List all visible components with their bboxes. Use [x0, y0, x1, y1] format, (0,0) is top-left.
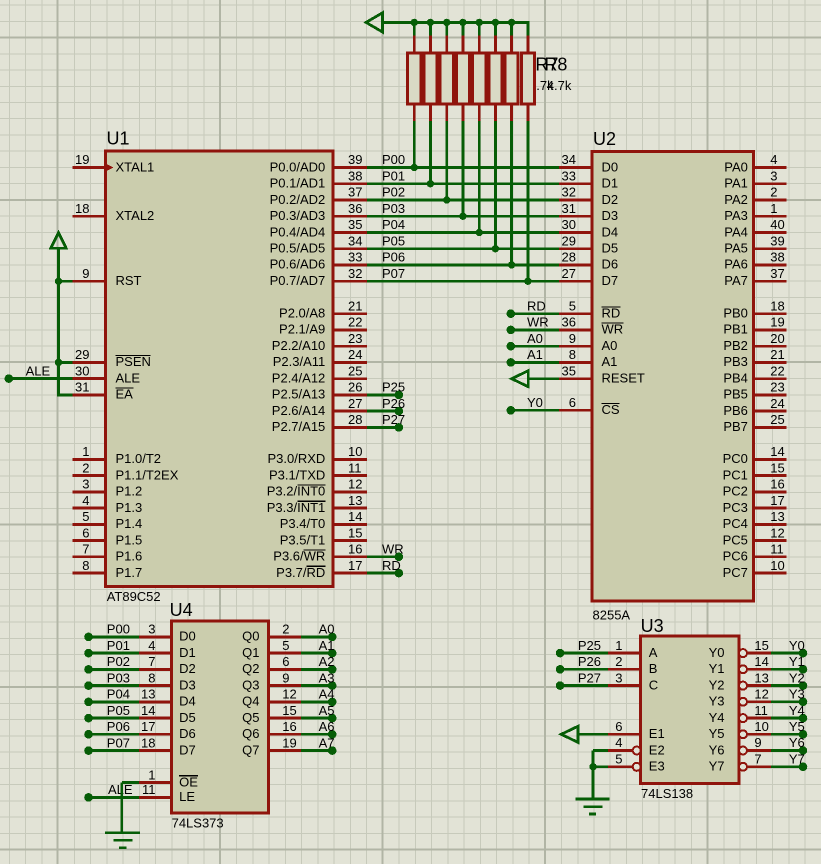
U2 pin 12 (PC5): [754, 539, 787, 542]
chip U1 AT89C52 body: [106, 151, 333, 587]
svg-text:28: 28: [562, 250, 576, 265]
svg-text:38: 38: [770, 250, 784, 265]
svg-text:P0.5/AD5: P0.5/AD5: [270, 241, 326, 256]
U3 pin 6 (E1): [608, 733, 641, 736]
wire net P27 to U3: [560, 684, 608, 687]
svg-text:PA0: PA0: [724, 159, 748, 174]
U1 pin 11 (P3.1/TXD): [333, 474, 367, 477]
svg-text:14: 14: [754, 654, 768, 669]
svg-text:12: 12: [754, 687, 768, 702]
svg-text:Y0: Y0: [527, 395, 543, 410]
svg-text:PC6: PC6: [723, 549, 748, 564]
U2 pin 17 (PC3): [754, 507, 787, 510]
svg-text:Y3: Y3: [789, 687, 805, 702]
svg-text:Q2: Q2: [242, 661, 259, 676]
svg-text:PC3: PC3: [723, 500, 748, 515]
svg-text:D1: D1: [179, 645, 196, 660]
wire net A1: [511, 361, 559, 364]
svg-text:Y6: Y6: [709, 742, 725, 757]
U1 pin 31 (EA): [73, 393, 106, 396]
svg-text:14: 14: [348, 509, 362, 524]
U3 pin 7 (Y7): [739, 763, 747, 771]
U1 pin 16 (P3.6/WR): [333, 555, 367, 558]
svg-text:24: 24: [348, 347, 362, 362]
svg-text:PB7: PB7: [723, 419, 748, 434]
U3 pin 1 (A): [608, 652, 641, 655]
node A4 dangling end: [328, 698, 337, 707]
junction top rail / R1: [411, 19, 418, 26]
junction R7 / P06 wire: [508, 261, 515, 268]
wire net Y2 out: [771, 684, 803, 687]
svg-text:15: 15: [754, 638, 768, 653]
svg-text:33: 33: [562, 168, 576, 183]
svg-text:13: 13: [770, 509, 784, 524]
U1 pin 33 (P0.6/AD6): [333, 263, 367, 266]
svg-text:PC5: PC5: [723, 532, 748, 547]
node Y4 dangling end: [799, 714, 808, 723]
svg-text:XTAL2: XTAL2: [116, 208, 155, 223]
node Y0 terminal dot: [507, 406, 516, 415]
U1 pin 30 (ALE): [73, 377, 106, 380]
svg-text:PA5: PA5: [724, 241, 748, 256]
chip U3 74LS138 body: [641, 636, 740, 783]
svg-text:D3: D3: [602, 208, 619, 223]
wire net P06 to U4: [89, 733, 140, 736]
svg-text:34: 34: [348, 233, 362, 248]
svg-text:A: A: [649, 645, 658, 660]
wire net Y3 out: [771, 700, 803, 703]
svg-text:P2.3/A11: P2.3/A11: [273, 354, 326, 369]
U2 pin 16 (PC2): [754, 490, 787, 493]
U3 pin 3 (C): [608, 684, 641, 687]
svg-text:PC1: PC1: [723, 467, 748, 482]
svg-text:7: 7: [148, 654, 155, 669]
U1 pin 26 (P2.5/A13): [333, 393, 367, 396]
wire net RD: [511, 312, 559, 315]
svg-text:11: 11: [770, 542, 784, 557]
resistor R4 4.7k: [456, 21, 469, 216]
wire net Y0 out: [771, 652, 803, 655]
svg-text:P06: P06: [382, 250, 405, 265]
U4 pin 3 (D0): [139, 636, 171, 639]
U2 pin 22 (PB4): [754, 377, 787, 380]
svg-text:P25: P25: [578, 638, 601, 653]
U1 pin 10 (P3.0/RXD): [333, 458, 367, 461]
resistor R2 4.7k: [424, 21, 437, 184]
svg-text:Q6: Q6: [242, 726, 259, 741]
svg-text:P03: P03: [382, 201, 405, 216]
svg-text:PB3: PB3: [723, 354, 748, 369]
U1 pin 18 (XTAL2): [73, 215, 106, 218]
junction R2 / P01 wire: [427, 180, 434, 187]
svg-text:Y2: Y2: [789, 670, 805, 685]
chip U2 8255A body: [592, 151, 754, 601]
svg-text:P3.6/WR: P3.6/WR: [273, 549, 325, 564]
U2 pin 1 (PA3): [754, 215, 787, 218]
svg-text:6: 6: [569, 395, 576, 410]
svg-text:22: 22: [348, 315, 362, 330]
junction top rail / R2: [427, 19, 434, 26]
power symbol VCC (near RST): [51, 233, 66, 249]
svg-text:30: 30: [562, 217, 576, 232]
U4 pin 8 (D3): [139, 684, 171, 687]
U1 pin 3 (P1.2): [73, 490, 106, 493]
U1 pin 7 (P1.6): [73, 555, 106, 558]
junction top rail / R5: [476, 19, 483, 26]
input terminal arrow (E1): [561, 726, 578, 742]
svg-text:Y7: Y7: [789, 752, 805, 767]
U2 pin 18 (PB0): [754, 312, 787, 315]
svg-text:13: 13: [141, 687, 155, 702]
svg-text:3: 3: [770, 168, 777, 183]
svg-text:P1.0/T2: P1.0/T2: [116, 451, 162, 466]
svg-text:35: 35: [562, 363, 576, 378]
wire net A0: [511, 345, 559, 348]
svg-text:PC2: PC2: [723, 484, 748, 499]
svg-text:A2: A2: [319, 654, 335, 669]
svg-text:P00: P00: [382, 152, 405, 167]
U1 pin 24 (P2.3/A11): [333, 361, 367, 364]
wire net P07 to U4: [89, 749, 140, 752]
svg-text:R8: R8: [544, 55, 567, 75]
svg-text:P2.1/A9: P2.1/A9: [279, 322, 325, 337]
svg-text:16: 16: [348, 542, 362, 557]
svg-text:P1.5: P1.5: [116, 532, 143, 547]
svg-text:28: 28: [348, 412, 362, 427]
svg-text:4: 4: [615, 735, 622, 750]
svg-text:25: 25: [348, 363, 362, 378]
U2 pin 33 (D1): [559, 182, 592, 185]
svg-text:10: 10: [754, 719, 768, 734]
U3 pin 14 (Y1): [739, 665, 747, 673]
svg-text:P3.0/RXD: P3.0/RXD: [267, 451, 325, 466]
U1 pin 13 (P3.3/INT1): [333, 507, 367, 510]
svg-text:Y0: Y0: [789, 638, 805, 653]
svg-text:1: 1: [615, 638, 622, 653]
svg-text:P25: P25: [382, 380, 405, 395]
svg-text:36: 36: [562, 315, 576, 330]
node ALE terminal dot (U4): [84, 793, 93, 802]
svg-text:12: 12: [348, 477, 362, 492]
svg-text:P3.7/RD: P3.7/RD: [276, 565, 325, 580]
node Y2 dangling end: [799, 681, 808, 690]
svg-text:31: 31: [75, 380, 89, 395]
node P03 terminal dot (U4): [84, 681, 93, 690]
U1 pin 25 (P2.4/A12): [333, 377, 367, 380]
svg-text:11: 11: [142, 782, 156, 797]
svg-text:20: 20: [770, 331, 784, 346]
U4 pin 6 (Q2): [268, 668, 301, 671]
svg-text:D7: D7: [179, 742, 196, 757]
U2 pin 37 (PA7): [754, 280, 787, 283]
svg-text:18: 18: [75, 201, 89, 216]
svg-text:PC0: PC0: [723, 451, 748, 466]
wire net P00 to U4: [89, 636, 140, 639]
svg-text:Y7: Y7: [709, 759, 725, 774]
svg-text:37: 37: [770, 266, 784, 281]
U1 pin 9 (RST): [73, 280, 106, 283]
node P07 terminal dot (U4): [84, 746, 93, 755]
wire net Y4 out: [771, 717, 803, 720]
svg-text:15: 15: [770, 460, 784, 475]
svg-text:P1.4: P1.4: [116, 516, 143, 531]
svg-text:P3.1/TXD: P3.1/TXD: [269, 467, 325, 482]
svg-text:RESET: RESET: [602, 371, 645, 386]
U2 pin 11 (PC6): [754, 555, 787, 558]
svg-text:5: 5: [569, 298, 576, 313]
svg-text:CS: CS: [602, 402, 620, 417]
svg-text:6: 6: [282, 654, 289, 669]
svg-text:P2.5/A13: P2.5/A13: [272, 387, 326, 402]
U4 pin 15 (Q5): [268, 717, 301, 720]
svg-text:PB0: PB0: [723, 306, 748, 321]
resistor R6 4.7k: [489, 21, 502, 249]
node Y7 dangling end: [799, 763, 808, 772]
svg-text:Y5: Y5: [789, 719, 805, 734]
resistor R8 4.7k: [521, 21, 534, 281]
wire ALE net: [9, 377, 73, 380]
U2 pin 40 (PA4): [754, 231, 787, 234]
svg-text:Y1: Y1: [709, 661, 725, 676]
U2 pin 39 (PA5): [754, 247, 787, 250]
U1 pin 36 (P0.3/AD3): [333, 215, 367, 218]
U2 pin 23 (PB5): [754, 393, 787, 396]
U2 pin 35 (RESET): [559, 377, 592, 380]
U1 pin 8 (P1.7): [73, 572, 106, 575]
svg-text:27: 27: [348, 396, 362, 411]
U4 pin 19 (Q7): [268, 749, 301, 752]
node WR terminal dot: [507, 326, 516, 335]
svg-text:P05: P05: [107, 703, 130, 718]
svg-text:P2.6/A14: P2.6/A14: [272, 403, 326, 418]
svg-text:P06: P06: [107, 719, 130, 734]
svg-text:E3: E3: [649, 759, 665, 774]
svg-text:Y6: Y6: [789, 735, 805, 750]
junction R6 / P05 wire: [492, 245, 499, 252]
U1 pin 6 (P1.5): [73, 539, 106, 542]
svg-text:12: 12: [770, 525, 784, 540]
U2 pin 32 (D2): [559, 199, 592, 202]
junction top rail / R4: [459, 19, 466, 26]
svg-text:U1: U1: [107, 129, 130, 149]
svg-text:25: 25: [770, 412, 784, 427]
junction R8 / P07 wire: [524, 278, 531, 285]
U4 pin 13 (D4): [139, 701, 171, 704]
svg-text:P02: P02: [107, 654, 130, 669]
svg-text:PA2: PA2: [724, 192, 748, 207]
resistor R3 4.7k: [440, 21, 453, 200]
wire net A0: [301, 636, 332, 639]
wire net P01 to U4: [89, 652, 140, 655]
wire OE to ground: [122, 781, 139, 784]
svg-text:Y0: Y0: [709, 645, 725, 660]
U4 pin 18 (D7): [139, 749, 171, 752]
svg-text:8: 8: [569, 347, 576, 362]
svg-text:P26: P26: [382, 396, 405, 411]
svg-text:Y1: Y1: [789, 654, 805, 669]
U4 pin 9 (Q3): [268, 684, 301, 687]
wire net P27 stub: [367, 426, 399, 429]
svg-text:19: 19: [770, 315, 784, 330]
svg-text:35: 35: [348, 217, 362, 232]
wire net Y5 out: [771, 733, 803, 736]
U1 pin 28 (P2.7/A15): [333, 426, 367, 429]
ground (U4 OE): [105, 833, 140, 848]
svg-text:D4: D4: [602, 224, 619, 239]
U2 pin 3 (PA1): [754, 182, 787, 185]
input terminal arrow (RESET): [512, 371, 529, 387]
junction E3/gnd line: [589, 763, 596, 770]
wire net P02 (U1 to U2): [367, 199, 559, 202]
U3 pin 12 (Y3): [739, 698, 747, 706]
junction top rail / R3: [443, 19, 450, 26]
wire net A3: [301, 684, 332, 687]
svg-text:P0.2/AD2: P0.2/AD2: [270, 192, 326, 207]
U3 pin 10 (Y5): [739, 730, 747, 738]
svg-text:A7: A7: [319, 735, 335, 750]
wire net P05 to U4: [89, 717, 140, 720]
svg-text:P2.7/A15: P2.7/A15: [272, 419, 326, 434]
U2 pin 21 (PB3): [754, 361, 787, 364]
svg-text:D3: D3: [179, 677, 196, 692]
svg-text:XTAL1: XTAL1: [116, 159, 155, 174]
svg-text:P2.2/A10: P2.2/A10: [272, 338, 326, 353]
svg-text:29: 29: [562, 233, 576, 248]
svg-text:12: 12: [282, 687, 296, 702]
node Y0 dangling end: [799, 649, 808, 658]
U1 pin 1 (P1.0/T2): [73, 458, 106, 461]
svg-text:A3: A3: [319, 670, 335, 685]
wire net P01 (U1 to U2): [367, 182, 559, 185]
node Y3 dangling end: [799, 698, 808, 707]
svg-text:D5: D5: [179, 710, 196, 725]
wire net Y0 to CS: [511, 409, 559, 412]
svg-text:19: 19: [282, 735, 296, 750]
svg-text:ALE: ALE: [26, 363, 51, 378]
U1 pin 19 (XTAL1): [73, 166, 106, 169]
svg-text:D0: D0: [602, 159, 619, 174]
U1 pin 23 (P2.2/A10): [333, 345, 367, 348]
U4 pin 7 (D2): [139, 668, 171, 671]
wire net Y7 out: [771, 765, 803, 768]
svg-text:11: 11: [754, 703, 768, 718]
svg-text:74LS373: 74LS373: [172, 816, 224, 831]
svg-text:23: 23: [348, 331, 362, 346]
svg-text:6: 6: [82, 525, 89, 540]
svg-text:2: 2: [615, 654, 622, 669]
resistor R5 4.7k: [473, 21, 486, 233]
wire top rail: [381, 21, 529, 24]
U1 pin 32 (P0.7/AD7): [333, 280, 367, 283]
svg-text:PA1: PA1: [724, 176, 748, 191]
power terminal arrow (top rail): [366, 13, 383, 32]
U4 pin 2 (Q0): [268, 636, 301, 639]
svg-text:9: 9: [569, 331, 576, 346]
svg-text:A6: A6: [319, 719, 335, 734]
svg-text:38: 38: [348, 168, 362, 183]
U2 pin 8 (A1): [559, 361, 592, 364]
svg-text:9: 9: [282, 670, 289, 685]
svg-text:Q4: Q4: [242, 694, 259, 709]
svg-text:39: 39: [770, 233, 784, 248]
U2 pin 6 (CS): [559, 409, 592, 412]
wire net A2: [301, 668, 332, 671]
svg-text:14: 14: [141, 703, 155, 718]
svg-text:Q1: Q1: [242, 645, 259, 660]
U1 pin 12 (P3.2/INT0): [333, 490, 367, 493]
U2 pin 13 (PC4): [754, 523, 787, 526]
wire net P00 (U1 to U2): [367, 166, 559, 169]
svg-text:4: 4: [770, 152, 777, 167]
svg-text:A0: A0: [602, 338, 618, 353]
svg-text:21: 21: [770, 347, 784, 362]
svg-text:P07: P07: [107, 735, 130, 750]
U3 pin 2 (B): [608, 668, 641, 671]
svg-text:C: C: [649, 677, 658, 692]
svg-text:D1: D1: [602, 176, 619, 191]
svg-text:22: 22: [770, 363, 784, 378]
node A6 dangling end: [328, 730, 337, 739]
svg-text:15: 15: [348, 525, 362, 540]
svg-text:Q7: Q7: [242, 742, 259, 757]
svg-text:RD: RD: [527, 298, 546, 313]
svg-text:P04: P04: [107, 687, 130, 702]
node A1 dangling end: [328, 649, 337, 658]
U1 pin 38 (P0.1/AD1): [333, 182, 367, 185]
svg-text:P26: P26: [578, 654, 601, 669]
node Y5 dangling end: [799, 730, 808, 739]
U2 pin 28 (D6): [559, 263, 592, 266]
wire net P25 to U3: [560, 652, 608, 655]
svg-text:1: 1: [148, 767, 155, 782]
U2 pin 38 (PA6): [754, 263, 787, 266]
svg-text:U2: U2: [593, 129, 616, 149]
node A2 dangling end: [328, 665, 337, 674]
svg-text:P07: P07: [382, 266, 405, 281]
svg-text:P27: P27: [578, 670, 601, 685]
svg-text:B: B: [649, 661, 658, 676]
svg-text:P00: P00: [107, 622, 130, 637]
U1 pin 39 (P0.0/AD0): [333, 166, 367, 169]
ground (U3 E2/E3): [576, 799, 610, 814]
U2 pin 15 (PC1): [754, 474, 787, 477]
resistor R1 4.7k: [408, 21, 421, 168]
U1 pin 29 (PSEN): [73, 361, 106, 364]
svg-text:19: 19: [75, 152, 89, 167]
svg-text:3: 3: [615, 670, 622, 685]
wire RESET: [527, 377, 559, 380]
U1 pin 35 (P0.4/AD4): [333, 231, 367, 234]
svg-text:A1: A1: [527, 347, 543, 362]
wire net P25 stub: [367, 393, 399, 396]
U4 pin 16 (Q6): [268, 733, 301, 736]
svg-text:E1: E1: [649, 726, 665, 741]
svg-text:P0.7/AD7: P0.7/AD7: [270, 273, 326, 288]
svg-text:23: 23: [770, 380, 784, 395]
U2 pin 9 (A0): [559, 345, 592, 348]
svg-text:30: 30: [75, 363, 89, 378]
wire net RD stub: [367, 572, 399, 575]
U2 pin 14 (PC0): [754, 458, 787, 461]
wire net P07 (U1 to U2): [367, 280, 559, 283]
svg-text:PB4: PB4: [723, 371, 748, 386]
svg-text:PA6: PA6: [724, 257, 748, 272]
svg-text:16: 16: [770, 477, 784, 492]
svg-text:27: 27: [562, 266, 576, 281]
wire net P04 (U1 to U2): [367, 231, 559, 234]
U2 pin 31 (D3): [559, 215, 592, 218]
wire net WR stub: [367, 555, 399, 558]
